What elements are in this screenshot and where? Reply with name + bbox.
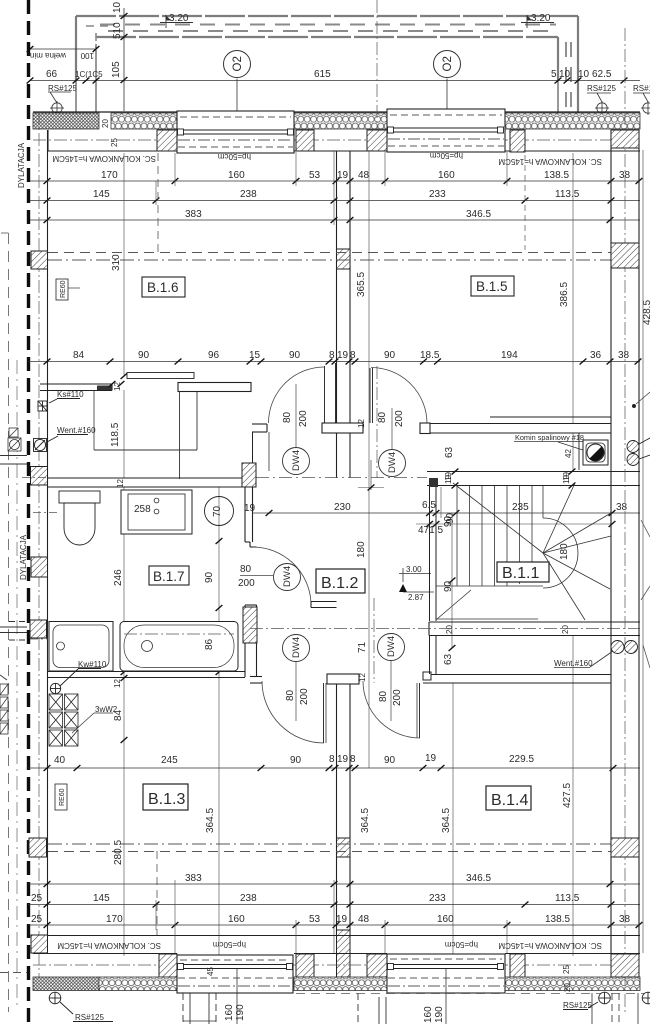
room label B.1.2: [316, 569, 365, 593]
svg-text:200: 200: [298, 410, 309, 427]
bottom wall axis: [33, 964, 640, 966]
vent pipe circles lower (B.1.4): [611, 641, 638, 654]
room label B.1.5: [471, 276, 514, 296]
svg-text:DW4: DW4: [291, 450, 302, 471]
svg-text:346.5: 346.5: [466, 209, 491, 220]
kitchen annex top bar wall: [178, 383, 251, 392]
svg-text:246: 246: [113, 569, 124, 586]
svg-text:hp=50cm: hp=50cm: [218, 152, 251, 161]
dashed roof line verticals: [157, 153, 159, 254]
RS#125 labels top right: [587, 93, 650, 115]
svg-text:194: 194: [501, 350, 518, 361]
left margin dashed boundary: [8, 233, 10, 1012]
svg-text:8: 8: [329, 754, 335, 765]
svg-text:63: 63: [443, 653, 454, 665]
svg-text:200: 200: [299, 688, 310, 705]
svg-text:10: 10: [578, 69, 590, 80]
svg-text:80: 80: [378, 690, 389, 702]
svg-text:170: 170: [101, 170, 118, 181]
svg-text:96: 96: [208, 350, 220, 361]
dim welna min. 100: [30, 48, 96, 50]
vent pipe circles in right wall (komin zone): [627, 438, 650, 466]
dashed extension x525 in B.1.5: [524, 155, 526, 250]
svg-text:280.5: 280.5: [113, 840, 124, 865]
bottom dim row1 y925: [28, 924, 640, 926]
stair winder arc: [543, 518, 578, 588]
svg-text:wełna min.: wełna min.: [28, 51, 67, 60]
svg-text:B.1.1: B.1.1: [502, 565, 539, 582]
svg-text:90: 90: [204, 571, 215, 583]
svg-text:19: 19: [425, 753, 437, 764]
svg-text:230: 230: [334, 502, 351, 513]
svg-text:8: 8: [350, 350, 356, 361]
room label B.1.6: [142, 277, 185, 297]
shelf above wall: [127, 373, 194, 379]
left wall hatch blocks: [31, 251, 48, 269]
svg-text:8: 8: [350, 754, 356, 765]
svg-text:53: 53: [309, 170, 321, 181]
svg-text:Ks#110: Ks#110: [57, 390, 84, 399]
svg-text:180: 180: [559, 543, 570, 560]
top dim row 3 y220: [28, 219, 640, 221]
left wall inner face: [47, 130, 49, 936]
svg-text:RS#125: RS#125: [563, 1001, 592, 1010]
svg-text:B.1.3: B.1.3: [148, 791, 185, 808]
roof band inner dashes: [100, 25, 571, 111]
svg-text:200: 200: [238, 578, 255, 589]
svg-text:346.5: 346.5: [466, 873, 491, 884]
svg-text:160: 160: [437, 914, 454, 925]
svg-text:233: 233: [429, 189, 446, 200]
neighbour shower squares lower-left: [0, 675, 8, 734]
svg-text:145: 145: [93, 893, 110, 904]
bottom window left box: [177, 955, 293, 993]
axis circle O2 left with stem: [224, 51, 251, 78]
svg-text:160: 160: [228, 914, 245, 925]
corner line x269: [268, 432, 270, 471]
svg-text:62.5: 62.5: [592, 69, 612, 80]
stair side wall: [430, 487, 437, 621]
dim line 471.5: [416, 523, 612, 525]
level mark 3.20 right: [521, 15, 554, 28]
svg-text:235: 235: [512, 502, 529, 513]
svg-text:19: 19: [562, 472, 571, 481]
svg-text:70: 70: [212, 505, 223, 517]
svg-text:19: 19: [336, 914, 348, 925]
svg-text:DW4: DW4: [386, 636, 397, 657]
svg-text:118.5: 118.5: [110, 422, 121, 447]
top exterior wall: insulation knurl left: [33, 113, 99, 129]
svg-text:53: 53: [309, 914, 321, 925]
svg-text:160: 160: [438, 170, 455, 181]
svg-text:RE60: RE60: [59, 788, 66, 806]
horizontal dash-dot pair lower rooms: [48, 843, 639, 845]
top wall hatched piers: [157, 130, 177, 151]
svg-text:90: 90: [138, 350, 150, 361]
wall piece right of bath door: [311, 602, 337, 608]
svg-text:200: 200: [394, 410, 405, 427]
svg-text:90: 90: [384, 350, 396, 361]
B.1.4 corner jog: [430, 636, 437, 675]
window W top-right: [387, 109, 505, 152]
svg-text:180: 180: [356, 541, 367, 558]
room label B.1.1: [497, 562, 549, 582]
svg-text:12: 12: [116, 479, 125, 488]
dilatation thick dashed line: [27, 0, 30, 1024]
svg-text:90: 90: [290, 755, 302, 766]
svg-text:113.5: 113.5: [555, 893, 580, 904]
svg-text:Komin spalinowy #18: Komin spalinowy #18: [515, 433, 584, 442]
DW4 circle bottom-left door: [283, 635, 310, 662]
dim extension verticals top: [156, 148, 639, 225]
dim row middle y361: [28, 361, 640, 363]
svg-text:105: 105: [111, 61, 122, 78]
svg-text:160: 160: [224, 1004, 235, 1021]
svg-text:138.5: 138.5: [545, 914, 570, 925]
under-stair diagonal: [437, 590, 471, 619]
svg-text:RS#125: RS#125: [587, 84, 616, 93]
terrace drop lines below left window: [183, 993, 216, 1024]
bottom-left door leaf+arc: [323, 683, 325, 743]
svg-text:DYLATACJA: DYLATACJA: [17, 142, 26, 188]
svg-text:20: 20: [445, 625, 454, 634]
svg-text:427.5: 427.5: [562, 783, 573, 808]
svg-text:42: 42: [564, 449, 573, 458]
bottom right vertical lines: [592, 993, 638, 1024]
party wall hatch blocks: [337, 249, 351, 269]
svg-text:238: 238: [240, 893, 257, 904]
top dim line y80: [30, 80, 640, 82]
komin chimney symbol: [583, 440, 608, 465]
svg-text:DW4: DW4: [387, 452, 398, 473]
svg-text:10: 10: [112, 1, 123, 13]
svg-text:SC. KOLANKOWA h=145CM: SC. KOLANKOWA h=145CM: [498, 941, 602, 950]
svg-text:190: 190: [235, 1004, 246, 1021]
svg-text:20: 20: [561, 625, 570, 634]
top wall insulation circles segments: [111, 113, 177, 129]
svg-text:25: 25: [31, 914, 43, 925]
top wall axis dash-dot: [33, 139, 640, 141]
svg-text:RS#125: RS#125: [75, 1013, 104, 1022]
axis circle O2 right with stem: [434, 51, 461, 78]
svg-text:160: 160: [228, 170, 245, 181]
svg-text:84: 84: [73, 350, 85, 361]
right wall outer face: [638, 130, 640, 953]
svg-text:71: 71: [357, 641, 368, 653]
hall axis dash-dot y628: [250, 628, 640, 630]
svg-text:38: 38: [616, 502, 628, 513]
svg-text:48: 48: [358, 170, 370, 181]
roof corner small dashes left: [86, 26, 110, 48]
svg-text:90: 90: [443, 515, 454, 527]
neighbour wall stub mid-left: [0, 456, 27, 465]
RS#125 bottom left: [49, 992, 113, 1022]
horizontal dash-dot pair upper rooms: [48, 252, 639, 254]
dim row y513: [252, 512, 640, 514]
svg-text:80: 80: [240, 564, 252, 575]
svg-text:80: 80: [285, 689, 296, 701]
top dim row 2 y200: [28, 200, 640, 202]
svg-text:19: 19: [337, 350, 349, 361]
RE60 box top: [56, 279, 68, 300]
svg-text:80: 80: [377, 411, 388, 423]
right wall axis: [624, 28, 626, 1012]
wall below B.1.6 (W1): [40, 384, 112, 391]
svg-text:12: 12: [358, 673, 367, 682]
svg-text:O2: O2: [232, 56, 244, 71]
svg-text:Went.#160: Went.#160: [554, 659, 593, 668]
bottom dim row3 y884: [28, 883, 640, 885]
window center stems bottom: [236, 969, 238, 1024]
svg-text:38: 38: [618, 350, 630, 361]
top wall outer line: [33, 111, 640, 113]
svg-text:100: 100: [80, 51, 94, 60]
RS#125 bottom right: [563, 992, 650, 1010]
Kw#110 floor drain: [50, 669, 101, 695]
svg-text:25: 25: [562, 965, 571, 974]
svg-text:258: 258: [134, 504, 151, 515]
svg-text:383: 383: [185, 873, 202, 884]
svg-text:3.00: 3.00: [406, 565, 422, 574]
svg-text:25: 25: [31, 893, 43, 904]
svg-text:SC. KOLANKOWA h=145CM: SC. KOLANKOWA h=145CM: [498, 157, 602, 166]
svg-text:615: 615: [314, 69, 331, 80]
svg-text:145: 145: [93, 189, 110, 200]
vent Went.#160 on left wall: [34, 435, 89, 452]
right wall hatch blocks: [611, 130, 639, 148]
RE60 box bottom: [55, 784, 67, 810]
window W top-left: [177, 111, 294, 153]
bathroom door arc: [253, 547, 312, 603]
svg-text:45: 45: [206, 967, 215, 976]
svg-text:B.1.5: B.1.5: [476, 279, 508, 294]
bottom wall hatched piers: [159, 954, 177, 977]
svg-text:DYLATACJA: DYLATACJA: [19, 534, 28, 580]
top wall inner face line: [48, 130, 640, 151]
svg-text:80: 80: [282, 411, 293, 423]
svg-text:15: 15: [249, 350, 261, 361]
svg-text:365.5: 365.5: [356, 272, 367, 297]
shower drain grid 3w2: [49, 694, 78, 746]
svg-text:170: 170: [106, 914, 123, 925]
vertical dim line left x124: [123, 8, 125, 111]
door top-left (into B.1.5 side) leaf+arc: [325, 363, 336, 423]
svg-text:12: 12: [113, 382, 122, 391]
stair winder radials: [453, 483, 611, 620]
svg-text:8: 8: [329, 350, 335, 361]
roof overhang outline top band: [76, 16, 578, 113]
svg-text:3.20: 3.20: [169, 13, 189, 24]
wall under tub W5: [48, 672, 245, 678]
dim row y768: [28, 767, 640, 769]
svg-text:20: 20: [101, 119, 110, 128]
svg-text:DW4: DW4: [282, 566, 293, 587]
toilet: [59, 491, 100, 545]
bottom-right door leaf+arc: [419, 683, 421, 738]
svg-text:48: 48: [358, 914, 370, 925]
DW4 circle bathroom door: [274, 564, 301, 591]
washer circle 70: [205, 497, 234, 526]
svg-text:18.5: 18.5: [420, 350, 440, 361]
svg-text:66: 66: [46, 69, 58, 80]
svg-text:B.1.6: B.1.6: [147, 280, 179, 295]
svg-text:90: 90: [289, 350, 301, 361]
roof verticals to wall: [76, 44, 558, 113]
grille Ks#110 on left wall: [38, 399, 80, 412]
neighbour stub y972: [0, 972, 27, 974]
level mark 3.20 left: [160, 15, 193, 28]
bottom window right box: [387, 954, 505, 993]
washbasin counter 258: [121, 490, 192, 534]
svg-text:245: 245: [161, 755, 178, 766]
svg-text:138.5: 138.5: [544, 170, 569, 181]
RS#125 label top left: [48, 92, 71, 115]
svg-text:113.5: 113.5: [555, 189, 580, 200]
bathtub: [120, 622, 238, 672]
room label B.1.4: [486, 786, 531, 810]
neighbour stair marks right edge: [641, 520, 650, 668]
stair bottom wall: [429, 622, 640, 636]
svg-text:90: 90: [443, 580, 454, 592]
svg-text:90: 90: [384, 755, 396, 766]
svg-text:10: 10: [559, 69, 571, 80]
svg-text:RE60: RE60: [60, 280, 67, 298]
bottom dim extension verticals: [156, 880, 639, 953]
bottom insulation circles: [99, 977, 177, 991]
neighbour symbols (mirror): [8, 428, 21, 451]
svg-text:hp=50cm: hp=50cm: [430, 151, 463, 160]
svg-text:364.5: 364.5: [441, 808, 452, 833]
top dim row 1 y181: [28, 180, 640, 182]
svg-text:364.5: 364.5: [205, 808, 216, 833]
bottom insulation knurl left: [33, 977, 99, 991]
door top-right leaf+arc: [370, 368, 373, 423]
room label B.1.3: [143, 784, 188, 810]
shower tray: [49, 622, 113, 672]
wall band W3 right part (19): [427, 472, 640, 486]
left wall axis dash-dot: [38, 112, 40, 992]
svg-text:25: 25: [110, 138, 119, 147]
vertical dim lines interior: [124, 150, 573, 956]
axis dash-dot x377: [376, 0, 378, 129]
wall W6 bottom of hall: [250, 675, 611, 684]
room label B.1.7: [149, 566, 189, 585]
svg-text:RS#12: RS#12: [633, 84, 650, 93]
svg-text:B.1.4: B.1.4: [491, 792, 528, 809]
svg-text:386.5: 386.5: [559, 282, 570, 307]
stair treads: [436, 486, 543, 619]
komin niche vertical: [578, 433, 580, 470]
svg-text:229.5: 229.5: [509, 754, 534, 765]
wall W2 under B.1.5: [252, 417, 611, 433]
svg-text:19: 19: [337, 754, 349, 765]
svg-text:2.87: 2.87: [408, 593, 424, 602]
svg-text:86: 86: [204, 638, 215, 650]
bottom wall inner face: [48, 935, 640, 937]
right wall inner face: [610, 130, 612, 953]
svg-text:DW4: DW4: [291, 637, 302, 658]
DW4 circle top-left door: [283, 448, 310, 475]
DW4 circle top-right door: [379, 450, 406, 477]
DW4 circle bottom-right door: [378, 634, 405, 661]
svg-text:5: 5: [551, 69, 557, 80]
svg-text:20: 20: [563, 983, 572, 992]
svg-text:hp=50cm: hp=50cm: [445, 940, 478, 949]
dashed ground line bottom right: [296, 993, 650, 995]
svg-text:364.5: 364.5: [360, 808, 371, 833]
svg-text:63: 63: [444, 446, 455, 458]
stair vertical dim line: [451, 513, 453, 648]
svg-text:233: 233: [429, 893, 446, 904]
svg-text:Went.#160: Went.#160: [57, 426, 96, 435]
svg-text:19: 19: [444, 472, 453, 481]
svg-text:B.1.2: B.1.2: [321, 575, 358, 592]
svg-text:190: 190: [434, 1006, 445, 1023]
svg-text:12: 12: [357, 419, 366, 428]
neighbour wall stub lower-left: [0, 622, 27, 641]
svg-text:471.5: 471.5: [418, 525, 443, 536]
bathroom right wall: [245, 487, 257, 677]
svg-text:160: 160: [423, 1006, 434, 1023]
level mark 3.00/2.87: [399, 568, 434, 592]
kitchen annex counter strip: [179, 392, 181, 480]
svg-text:238: 238: [240, 189, 257, 200]
svg-text:200: 200: [392, 689, 403, 706]
svg-text:SC. KOLANKOWA h=145CM: SC. KOLANKOWA h=145CM: [52, 154, 156, 163]
terrace drop lines below right window: [358, 993, 386, 1024]
bottom wall second line: [33, 953, 640, 955]
svg-text:RS#125: RS#125: [48, 84, 77, 93]
svg-text:3.20: 3.20: [531, 13, 551, 24]
svg-text:SC. KOLANKOWA h=145CM: SC. KOLANKOWA h=145CM: [57, 941, 161, 950]
svg-text:40: 40: [54, 755, 66, 766]
svg-text:19: 19: [337, 170, 349, 181]
svg-text:12: 12: [113, 679, 122, 688]
svg-text:36: 36: [590, 350, 602, 361]
party wall verticals: [337, 151, 351, 936]
svg-text:383: 383: [185, 209, 202, 220]
wall band W3 left part (12): [48, 478, 250, 487]
svg-text:hp=50cm: hp=50cm: [213, 940, 246, 949]
svg-text:Kw#110: Kw#110: [78, 660, 107, 669]
svg-text:B.1.7: B.1.7: [153, 569, 185, 584]
svg-text:310: 310: [111, 254, 122, 271]
svg-text:O2: O2: [442, 56, 454, 71]
svg-text:19: 19: [244, 503, 256, 514]
svg-text:510: 510: [112, 22, 123, 39]
bottom dim row2 y904: [28, 904, 640, 906]
